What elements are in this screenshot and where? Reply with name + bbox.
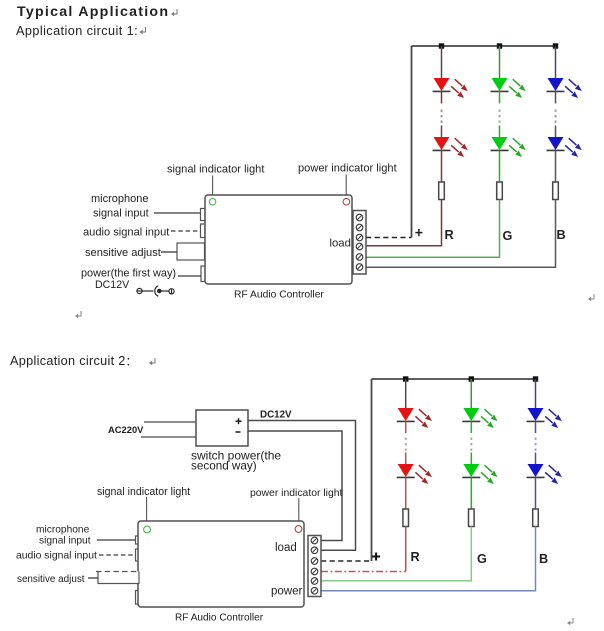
svg-text:RF Audio Controller: RF Audio Controller (175, 613, 264, 624)
wire red column down c2 (405, 527, 407, 572)
svg-text:signal input: signal input (93, 208, 149, 220)
terminal screw 5 c1 (356, 254, 363, 261)
wire power label pointer c1 (178, 275, 201, 277)
wire green dotted continuation c2 (470, 438, 472, 451)
wire signal indicator pointer c2 (146, 497, 148, 526)
resistor blue column c1 (553, 182, 559, 200)
paragraph mark after subtitle 2 (149, 358, 155, 365)
wire audio label pointer dashed c1 (171, 230, 201, 232)
svg-text:microphone: microphone (91, 193, 148, 205)
wire blue to resistor c1 (555, 150, 557, 182)
resistor green column c2 (469, 509, 475, 527)
wire + rail drop c2 (371, 379, 373, 561)
LED red D2 c1 (433, 137, 468, 157)
wire green to resistor c1 (499, 150, 501, 182)
LED green D3 c1 (491, 78, 526, 98)
connector tab microphone input c2 (136, 536, 141, 544)
terminal screw 5 c2 (311, 578, 318, 585)
wire mic label pointer c2 (97, 539, 136, 541)
node junction dot red column c2 (403, 376, 408, 381)
svg-text:G: G (503, 229, 513, 243)
wire AC line upper (144, 421, 196, 423)
wire green stub c2 (470, 421, 472, 433)
resistor green column c1 (497, 182, 503, 200)
trimmer sensitive adjust c2 (96, 572, 139, 584)
svg-text:load: load (330, 238, 351, 250)
wire blue column to terminal c1 (366, 200, 556, 268)
wire red column upper c2 (405, 379, 407, 408)
indicator red LED c2 (295, 526, 302, 533)
switch power supply box (196, 410, 248, 446)
wire green column to terminal c2 (321, 527, 471, 581)
svg-text:power: power (271, 586, 302, 598)
terminal screw 1 c2 (311, 537, 318, 544)
wire AC line lower (141, 436, 196, 438)
wire blue to resistor c2 (535, 477, 537, 509)
svg-text:B: B (539, 552, 548, 566)
wire red column to terminal c1 (366, 200, 442, 246)
wire audio label pointer dashed c2 (99, 554, 136, 556)
wire red stub c2 (405, 421, 407, 433)
wire red stub2 c2 (405, 453, 407, 465)
wire red column upper c1 (441, 46, 443, 78)
wire green to resistor c2 (470, 477, 472, 509)
svg-text:R: R (411, 550, 420, 564)
LED red D1 c2 (397, 408, 432, 428)
paragraph mark right of circuit 1 bottom (588, 294, 594, 301)
wire green dotted continuation c1 (499, 110, 501, 123)
svg-text:microphone: microphone (36, 525, 90, 536)
wire signal indicator pointer c1 (212, 176, 214, 199)
wire blue dotted continuation c1 (555, 110, 557, 123)
LED green D4 c1 (491, 137, 526, 157)
wire DC - to terminal 1 (248, 431, 342, 541)
svg-text:audio signal input: audio signal input (83, 227, 169, 239)
wire sensitive adjust pointer c2 (88, 577, 98, 579)
svg-text:sensitive adjust: sensitive adjust (85, 247, 161, 259)
svg-text:second way): second way) (191, 460, 257, 473)
wire blue column upper c2 (535, 379, 537, 408)
terminal screw 2 c2 (311, 547, 318, 554)
LED blue D5 c1 (547, 78, 582, 98)
terminal screw 6 c2 (311, 587, 318, 594)
indicator red LED c1 (343, 198, 350, 205)
LED blue D5 c2 (527, 408, 562, 428)
terminal screw 1 c1 (356, 214, 363, 221)
svg-text:G: G (477, 552, 487, 566)
LED red D1 c1 (433, 78, 468, 98)
LED blue D6 c1 (547, 137, 582, 157)
paragraph mark bottom right c2 (567, 618, 573, 625)
terminal screw 3 c1 (356, 234, 363, 241)
terminal block load c1 (353, 211, 366, 275)
wire blue stub2 c1 (555, 126, 557, 138)
wire green column upper c1 (499, 46, 501, 78)
wire blue stub2 c2 (535, 453, 537, 465)
wire blue stub c1 (555, 91, 557, 103)
controller box U1 c1 (205, 195, 352, 284)
wire dashed + to terminal c2 (321, 560, 372, 562)
wire red dotted continuation c2 (405, 438, 407, 451)
LED green D4 c2 (462, 464, 497, 484)
wire green column upper c2 (470, 379, 472, 408)
node + symbol c2 (372, 553, 380, 561)
svg-text:power(the first way): power(the first way) (81, 268, 176, 280)
wire power indicator pointer c2 (298, 498, 300, 526)
svg-text:load: load (275, 542, 297, 554)
wire red to resistor c2 (405, 477, 407, 509)
indicator green LED c1 (209, 199, 215, 205)
svg-text:DC12V: DC12V (95, 279, 130, 291)
wire power indicator pointer c1 (345, 175, 347, 199)
svg-text:signal input: signal input (39, 536, 91, 547)
svg-text:signal indicator light: signal indicator light (97, 486, 190, 498)
svg-text:audio signal input: audio signal input (16, 551, 97, 562)
terminal screw 4 c2 (311, 568, 318, 575)
wire dashed + to terminal c1 (366, 237, 412, 239)
connector tab power input c1 (201, 266, 206, 282)
wire red to resistor c1 (441, 150, 443, 182)
wire + rail drop c1 (411, 46, 413, 238)
wire blue column upper c1 (555, 46, 557, 78)
resistor blue column c2 (533, 509, 539, 527)
wire red stub c1 (441, 91, 443, 103)
resistor red column c1 (439, 182, 445, 200)
LED green D3 c2 (462, 408, 497, 428)
node junction dot blue column c1 (553, 43, 558, 48)
DC barrel jack symbol c1 (137, 286, 174, 296)
paragraph mark after title (171, 9, 177, 16)
svg-text:power indicator light: power indicator light (250, 488, 343, 499)
trimmer sensitive adjust c1 (177, 243, 205, 260)
wire red dash-dot to terminal c2 (321, 571, 406, 573)
wire red dotted continuation c1 (441, 110, 443, 123)
svg-text:power indicator light: power indicator light (298, 163, 397, 175)
controller box U1 c2 (138, 521, 304, 607)
label - output (236, 431, 241, 433)
positive supply rail (top bus) circuit 1 (412, 45, 557, 47)
svg-text:Application circuit 2：: Application circuit 2： (10, 354, 137, 368)
resistor red column c2 (403, 509, 409, 527)
label + output (236, 418, 242, 424)
svg-text:R: R (445, 228, 454, 242)
svg-text:Application circuit 1:: Application circuit 1: (16, 24, 138, 38)
svg-text:signal indicator light: signal indicator light (167, 164, 264, 176)
node + symbol c1 (415, 229, 422, 236)
wire green stub2 c1 (499, 126, 501, 138)
connector tab audio input c1 (201, 224, 206, 238)
svg-text:Typical Application: Typical Application (17, 4, 169, 20)
wire blue column to terminal c2 (321, 527, 536, 591)
svg-text:AC220V: AC220V (108, 424, 144, 435)
terminal screw 6 c1 (356, 264, 363, 271)
LED red D2 c2 (397, 464, 432, 484)
svg-text:DC12V: DC12V (260, 410, 292, 421)
connector tab bottom c2 (136, 591, 140, 605)
terminal block load/power c2 (308, 536, 321, 597)
node junction dot green column c1 (497, 43, 502, 48)
wire blue stub c2 (535, 421, 537, 433)
wire blue dotted continuation c2 (535, 438, 537, 451)
node junction dot green column c2 (469, 376, 474, 381)
terminal screw 2 c1 (356, 224, 363, 231)
connector tab audio input c2 (136, 549, 141, 561)
terminal screw 3 c2 (311, 558, 318, 565)
positive supply rail (top bus) circuit 2 (372, 378, 536, 380)
paragraph mark left of circuit 1 bottom (75, 311, 81, 318)
indicator green LED c2 (144, 526, 151, 533)
svg-text:B: B (557, 228, 566, 242)
wire sensitive adjust pointer c1 (161, 251, 177, 253)
wire DC + to terminal 2 (248, 421, 356, 551)
paragraph mark after subtitle 1 (140, 27, 146, 34)
terminal screw 4 c1 (356, 243, 363, 250)
wire mic label pointer c1 (154, 212, 201, 214)
wire red stub2 c1 (441, 126, 443, 138)
node junction dot blue column c2 (533, 376, 538, 381)
LED blue D6 c2 (527, 464, 562, 484)
connector tab microphone input c1 (201, 209, 206, 221)
svg-text:RF Audio Controller: RF Audio Controller (234, 290, 324, 301)
svg-text:sensitive adjust: sensitive adjust (17, 574, 85, 585)
wire green stub c1 (499, 91, 501, 103)
node junction dot red column c1 (439, 43, 444, 48)
wire green stub2 c2 (470, 453, 472, 465)
wire green column to terminal c1 (366, 200, 500, 258)
